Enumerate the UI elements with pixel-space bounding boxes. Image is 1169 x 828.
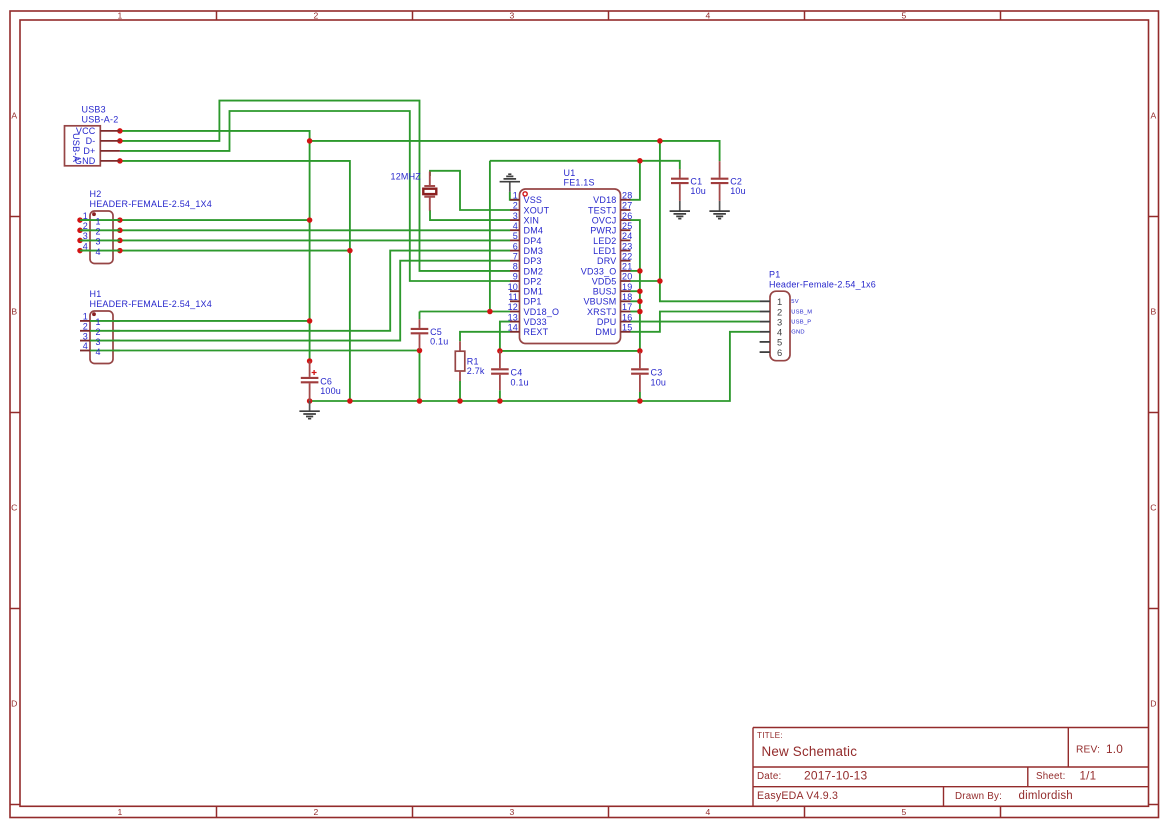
wire R1 bottom to bus [459, 381, 461, 401]
capacitor C6 plus sign [312, 370, 317, 375]
svg-text:5: 5 [902, 807, 907, 817]
svg-text:VD18: VD18 [593, 195, 616, 205]
svg-text:Header-Female-2.54_1x6: Header-Female-2.54_1x6 [769, 279, 876, 289]
ground under C1 [670, 201, 690, 219]
svg-text:EasyEDA V4.9.3: EasyEDA V4.9.3 [757, 790, 838, 802]
junction dot VD33 riser pin21 [637, 268, 643, 274]
svg-text:DP2: DP2 [524, 276, 542, 286]
header H1 pin 1 stub [80, 320, 90, 322]
wire C5 bottom to bus [419, 351, 421, 402]
svg-text:19: 19 [622, 282, 632, 292]
wire 1.8V riser down to VD18_O row [489, 161, 491, 312]
junction dot GND to H2 pin4 [347, 248, 353, 254]
svg-text:2: 2 [314, 10, 319, 20]
header H2 body [90, 211, 113, 264]
header H1 body [90, 311, 113, 364]
svg-text:B: B [1151, 307, 1157, 317]
wire VCC branch to C2 top [310, 141, 720, 161]
wire crystal bottom to U1 XIN [430, 210, 510, 220]
svg-text:9: 9 [513, 272, 518, 282]
junction dot H2 pin2 end [77, 228, 83, 234]
IC U1 body [520, 189, 621, 344]
IC U1 pin 7 DP3 stub [510, 260, 520, 262]
svg-text:DP4: DP4 [524, 236, 542, 246]
header P1 pin 6 stub [760, 351, 770, 353]
wire U1 VSS pin1 to ground [510, 192, 520, 200]
capacitor C1 top lead [679, 169, 681, 178]
svg-text:XOUT: XOUT [524, 205, 550, 215]
svg-text:VD18_O: VD18_O [524, 307, 560, 317]
svg-text:DP3: DP3 [524, 256, 542, 266]
IC U1 pin 20 VDD5 stub [621, 280, 631, 282]
svg-text:11: 11 [508, 292, 518, 302]
svg-text:USB3: USB3 [82, 105, 106, 115]
svg-text:27: 27 [622, 201, 632, 211]
svg-text:C: C [1150, 503, 1156, 513]
svg-text:22: 22 [622, 251, 632, 261]
IC U1 pin 13 VD33 stub [510, 321, 520, 323]
junction dot VD33 riser pin17 [637, 309, 643, 315]
wire USB3 GND right and down to bus [120, 161, 350, 401]
svg-text:U1: U1 [564, 168, 576, 178]
wire USB3 D- to U1 DM2 [120, 101, 510, 271]
capacitor C2 plates [711, 179, 729, 183]
junction dot bus at C6 [307, 398, 313, 404]
IC U1 pin 10 DM1 stub [510, 290, 520, 292]
IC U1 pin 12 VD18_O stub [510, 311, 520, 313]
junction dot 1.8V rail at pin28 riser [637, 158, 643, 164]
svg-text:VSS: VSS [524, 195, 543, 205]
svg-text:26: 26 [622, 211, 632, 221]
svg-text:Date:: Date: [757, 771, 781, 782]
IC U1 pin 23 LED1 stub [621, 250, 631, 252]
svg-text:VDD5: VDD5 [592, 276, 617, 286]
svg-text:D-: D- [86, 136, 96, 146]
svg-text:28: 28 [622, 191, 632, 201]
svg-text:10u: 10u [651, 377, 667, 387]
wire VD18_O row wire pin12 to C5 top [420, 311, 511, 313]
IC U1 pin 14 REXT stub [510, 331, 520, 333]
svg-text:C4: C4 [511, 368, 523, 378]
capacitor C4 top lead [499, 351, 501, 368]
svg-text:D: D [11, 699, 17, 709]
ground under C2 [709, 201, 729, 219]
wire VDD5 pin20 to riser [631, 280, 660, 282]
svg-text:D: D [1150, 699, 1156, 709]
svg-text:5V: 5V [791, 299, 799, 305]
junction dot H2 pin1 end [77, 217, 83, 223]
IC U1 pin 4 DM4 stub [510, 229, 520, 231]
IC U1 pin 22 DRV stub [621, 260, 631, 262]
svg-text:3: 3 [83, 331, 88, 341]
svg-text:VD33_O: VD33_O [581, 266, 617, 276]
svg-text:2: 2 [96, 327, 101, 337]
svg-text:DP1: DP1 [524, 297, 542, 307]
wire H2 pin4 to GND vertical [80, 250, 350, 252]
svg-text:LED1: LED1 [593, 246, 616, 256]
wire H2 pin1 to VCC vertical [80, 219, 310, 221]
svg-text:1: 1 [118, 10, 123, 20]
wire H1 rows across body [90, 321, 120, 351]
svg-text:DRV: DRV [597, 256, 616, 266]
svg-text:17: 17 [622, 302, 632, 312]
svg-text:C3: C3 [651, 368, 663, 378]
wire pin19 BUSJ to riser [631, 290, 640, 292]
svg-text:0.1u: 0.1u [430, 337, 448, 347]
svg-text:USB_M: USB_M [791, 309, 812, 315]
junction dot H2 pin3 wire [117, 238, 123, 244]
svg-text:C5: C5 [430, 327, 442, 337]
svg-text:DMU: DMU [595, 327, 616, 337]
IC U1 pin 24 LED2 stub [621, 239, 631, 241]
svg-text:7: 7 [513, 251, 518, 261]
IC U1 pin 17 XRSTJ stub [621, 311, 631, 313]
svg-text:2.7k: 2.7k [467, 366, 485, 376]
svg-text:REV:: REV: [1076, 745, 1100, 756]
svg-text:3: 3 [513, 211, 518, 221]
svg-text:PWRJ: PWRJ [590, 226, 616, 236]
junction dot USB3 GND pin end [117, 158, 123, 164]
svg-text:2: 2 [83, 322, 88, 332]
wire pin21 VD33_O to riser [631, 270, 640, 272]
svg-text:10: 10 [508, 282, 518, 292]
svg-text:12MHZ: 12MHZ [391, 172, 422, 182]
svg-text:DM2: DM2 [524, 266, 544, 276]
svg-text:10u: 10u [730, 186, 746, 196]
svg-text:16: 16 [622, 312, 632, 322]
junction dot USB3 VCC pin end [117, 128, 123, 134]
svg-text:1.0: 1.0 [1106, 742, 1123, 756]
wire H1 pin3 up to U1 DP3 [90, 261, 510, 341]
svg-text:XIN: XIN [524, 216, 540, 226]
svg-text:20: 20 [622, 272, 632, 282]
capacitor C4 bottom lead [499, 375, 501, 391]
IC U1 pin 18 VBUSM stub [621, 300, 631, 302]
svg-text:LED2: LED2 [593, 236, 616, 246]
header H1 pin1 marker dot [92, 312, 96, 316]
wire C3 bottom to bus [639, 392, 641, 401]
svg-text:dimlordish: dimlordish [1019, 790, 1073, 802]
svg-text:4: 4 [706, 807, 711, 817]
svg-text:0.1u: 0.1u [511, 377, 529, 387]
svg-text:DM4: DM4 [524, 226, 544, 236]
svg-text:HEADER-FEMALE-2.54_1X4: HEADER-FEMALE-2.54_1X4 [90, 299, 212, 309]
junction dot H2 pin3 end [77, 238, 83, 244]
svg-text:XRSTJ: XRSTJ [587, 307, 617, 317]
junction dot VD33 riser pin19 [637, 288, 643, 294]
IC U1 pin 6 DM3 stub [510, 250, 520, 252]
ground under C6 [299, 401, 319, 419]
svg-text:D+: D+ [83, 146, 95, 156]
capacitor C3 top lead [639, 352, 641, 368]
svg-text:4: 4 [96, 247, 101, 257]
junction dot 5V rail at VDD5 riser [657, 138, 663, 144]
IC U1 pin1 indicator circle [523, 192, 527, 196]
IC U1 pin 8 DM2 stub [510, 270, 520, 272]
crystal top lead [429, 172, 431, 186]
capacitor C6 top lead [309, 361, 311, 377]
wire H2 rows across body [80, 220, 120, 251]
svg-text:H2: H2 [90, 189, 102, 199]
svg-text:REXT: REXT [524, 327, 549, 337]
junction dot VD18 riser at pin12 row [487, 309, 493, 315]
svg-text:Sheet:: Sheet: [1036, 771, 1066, 782]
IC U1 pin 25 PWRJ stub [621, 229, 631, 231]
svg-text:25: 25 [622, 221, 632, 231]
capacitor C2 top lead [719, 161, 721, 178]
capacitor C2 bottom lead [719, 184, 721, 201]
IC U1 pin 21 VD33_O stub [621, 270, 631, 272]
svg-text:1: 1 [96, 317, 101, 327]
wire U1 DPU to P1 pin3 [631, 321, 760, 323]
svg-text:C1: C1 [690, 176, 702, 186]
svg-text:3: 3 [510, 807, 515, 817]
svg-text:100u: 100u [320, 386, 341, 396]
svg-text:12: 12 [508, 302, 518, 312]
resistor R1 bottom lead [459, 371, 461, 381]
svg-text:3: 3 [96, 337, 101, 347]
junction dot VCC to H2 pin1 [307, 217, 313, 223]
svg-text:DPU: DPU [597, 317, 617, 327]
wire C5 top lead wire [419, 312, 421, 320]
svg-text:GND: GND [791, 330, 804, 336]
IC U1 pin 27 TESTJ stub [621, 209, 631, 211]
junction dot C5 bottom / H1 pin4 [417, 348, 423, 354]
svg-text:DM3: DM3 [524, 246, 544, 256]
svg-text:VBUSM: VBUSM [583, 297, 616, 307]
svg-text:BUSJ: BUSJ [593, 287, 617, 297]
header H2 pin1 marker dot [92, 212, 96, 216]
svg-text:GND: GND [75, 156, 96, 166]
svg-text:24: 24 [622, 231, 632, 241]
IC U1 pin 1 VSS stub [510, 199, 520, 201]
IC U1 pin 5 DP4 stub [510, 239, 520, 241]
junction dot H2 pin2 wire [117, 228, 123, 234]
junction dot VD33 riser pin18 [637, 299, 643, 305]
junction dot VDD5 pin20 [657, 278, 663, 284]
svg-text:C2: C2 [730, 176, 742, 186]
capacitor C4 plates [491, 369, 509, 373]
capacitor C1 bottom lead [679, 184, 681, 201]
svg-text:2017-10-13: 2017-10-13 [804, 769, 868, 783]
svg-text:P1: P1 [769, 270, 780, 280]
wire VD33 riser up to OVCJ pin26 [631, 220, 640, 351]
svg-text:6: 6 [513, 241, 518, 251]
capacitor C5 top lead [419, 319, 421, 328]
svg-text:1: 1 [513, 191, 518, 201]
svg-text:14: 14 [508, 323, 518, 333]
capacitor C3 bottom lead [639, 375, 641, 392]
junction dot VCC to H1 pin1 [307, 318, 313, 324]
svg-text:TESTJ: TESTJ [588, 205, 617, 215]
junction dot USB3 D- pin end [117, 138, 123, 144]
junction dot bus at C4 [497, 398, 503, 404]
header P1 body [770, 291, 790, 361]
svg-text:New Schematic: New Schematic [762, 744, 858, 759]
wire ground bus to P1 pin4 [310, 332, 760, 401]
wire USB3 D+ to U1 DP2 [120, 111, 510, 281]
svg-text:2: 2 [513, 201, 518, 211]
svg-text:3: 3 [510, 10, 515, 20]
IC U1 pin 11 DP1 stub [510, 300, 520, 302]
header H1 pin 2 stub [80, 330, 90, 332]
wire VDD5 riser down to P1 pin1 [660, 141, 760, 301]
crystal plates [424, 186, 435, 197]
svg-text:VD33: VD33 [524, 317, 547, 327]
svg-text:4: 4 [96, 347, 101, 357]
wire H1 pin2 up to U1 DM3 [90, 251, 510, 331]
junction dot bus at GND drop [347, 398, 353, 404]
IC U1 pin 26 OVCJ stub [621, 219, 631, 221]
svg-text:15: 15 [622, 323, 632, 333]
IC U1 pin 2 XOUT stub [510, 209, 520, 211]
junction dot H2 pin4 wire [117, 248, 123, 254]
junction dot C4 top [497, 348, 503, 354]
wire H2 pin2 to U1 DM4 [80, 229, 510, 231]
junction dot bus at C3 [637, 398, 643, 404]
svg-text:VCC: VCC [76, 126, 96, 136]
wire crystal top to U1 XOUT [430, 171, 510, 210]
header H1 pin 4 stub [80, 350, 90, 352]
header H1 pin 3 stub [80, 340, 90, 342]
connector USB3 pin D- stub [100, 140, 120, 142]
crystal bottom lead [429, 198, 431, 211]
connector USB3 pin VCC stub [100, 130, 120, 132]
svg-text:5: 5 [902, 10, 907, 20]
junction dot VCC branch [307, 138, 313, 144]
wire 1.8V to U1 pin28 VD18 [631, 161, 640, 200]
wire U1 DMU to P1 pin2 [631, 312, 760, 332]
svg-text:C6: C6 [320, 376, 332, 386]
svg-text:6: 6 [777, 347, 782, 358]
svg-text:DM1: DM1 [524, 287, 544, 297]
svg-text:18: 18 [622, 292, 632, 302]
svg-text:1: 1 [96, 216, 101, 226]
svg-text:23: 23 [622, 241, 632, 251]
capacitor C3 plates [631, 369, 649, 373]
svg-text:13: 13 [508, 312, 518, 322]
connector USB3 pin GND stub [100, 160, 120, 162]
svg-text:FE1.1S: FE1.1S [564, 178, 595, 188]
header P1 pin 1 stub [760, 300, 770, 302]
IC U1 pin 16 DPU stub [621, 321, 631, 323]
svg-text:H1: H1 [90, 289, 102, 299]
title block outline [753, 728, 1149, 807]
junction dot C3 top [637, 348, 643, 354]
header P1 pin 5 stub [760, 341, 770, 343]
junction dot bus at C5 [417, 398, 423, 404]
connector USB3 pin D+ stub [100, 150, 120, 152]
svg-text:USB_P: USB_P [791, 319, 811, 325]
svg-text:OVCJ: OVCJ [592, 216, 617, 226]
wire H1 pin1 to VCC vertical [90, 320, 310, 322]
svg-text:2: 2 [314, 807, 319, 817]
IC U1 pin 28 VD18 stub [621, 199, 631, 201]
svg-text:10u: 10u [690, 186, 706, 196]
header P1 pin 4 stub [760, 331, 770, 333]
svg-text:HEADER-FEMALE-2.54_1X4: HEADER-FEMALE-2.54_1X4 [90, 199, 212, 209]
IC U1 pin 3 XIN stub [510, 219, 520, 221]
wire VCC: USB3.VCC right then down to C6 [120, 131, 310, 361]
svg-text:R1: R1 [467, 356, 479, 366]
svg-text:4: 4 [706, 10, 711, 20]
svg-text:A: A [11, 111, 17, 121]
svg-text:8: 8 [513, 262, 518, 272]
svg-text:1: 1 [118, 807, 123, 817]
svg-text:4: 4 [83, 341, 88, 351]
capacitor C5 bottom lead [419, 334, 421, 349]
svg-text:1/1: 1/1 [1080, 769, 1097, 782]
header P1 pin 3 stub [760, 321, 770, 323]
capacitor C5 plates [411, 329, 429, 333]
junction dot bus at R1 [457, 398, 463, 404]
wire H2 pin3 to U1 DP4 [80, 239, 510, 241]
capacitor C6 bottom lead [309, 383, 311, 401]
svg-text:21: 21 [622, 262, 632, 272]
junction dot H2 pin4 end [77, 248, 83, 254]
svg-text:1: 1 [83, 312, 88, 322]
svg-text:4: 4 [513, 221, 518, 231]
connector USB3 body [65, 126, 101, 166]
svg-text:C: C [11, 503, 17, 513]
resistor R1 body [455, 351, 465, 371]
svg-text:5: 5 [513, 231, 518, 241]
wire U1 VD33 pin13 down to C4/C3 rail [500, 322, 640, 351]
svg-text:USB-A-2: USB-A-2 [82, 114, 119, 124]
wire H1 pin4 to C5 bottom junction [90, 350, 420, 352]
IC U1 pin 9 DP2 stub [510, 280, 520, 282]
svg-text:2: 2 [96, 227, 101, 237]
IC U1 pin 19 BUSJ stub [621, 290, 631, 292]
wire pin17 XRSTJ to riser [631, 311, 640, 313]
junction dot H2 pin1 wire [117, 217, 123, 223]
wire U1 REXT to R1 top [460, 332, 510, 342]
svg-text:A: A [1151, 111, 1157, 121]
capacitor C6 plates [301, 378, 319, 382]
wire 1.8V rail to C1 top [490, 161, 680, 169]
svg-text:B: B [11, 307, 17, 317]
crystal body rectangle [423, 189, 436, 194]
wire pin18 VBUSM to riser [631, 300, 640, 302]
ground at U1 pin1 (flipped) [500, 174, 520, 192]
junction dot C6 top [307, 358, 313, 364]
svg-text:Drawn By:: Drawn By: [955, 791, 1002, 802]
resistor R1 top lead [459, 341, 461, 351]
header P1 pin 2 stub [760, 311, 770, 313]
svg-text:TITLE:: TITLE: [757, 731, 783, 740]
IC U1 pin 15 DMU stub [621, 331, 631, 333]
wire C4 bottom to bus [499, 390, 501, 401]
svg-text:3: 3 [96, 237, 101, 247]
capacitor C1 plates [671, 179, 689, 183]
